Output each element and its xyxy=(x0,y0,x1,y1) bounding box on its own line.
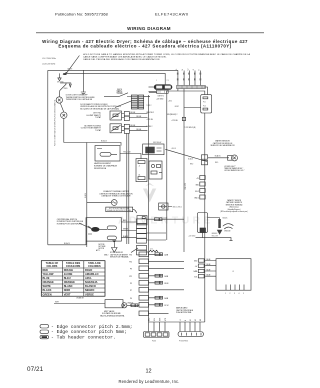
svg-text:N: N xyxy=(185,320,187,321)
svg-text:BLUE: BLUE xyxy=(207,259,211,261)
label MOTOR xyxy=(99,244,106,250)
svg-text:ELFE743CAW0: ELFE743CAW0 xyxy=(155,12,189,17)
bus x166 xyxy=(166,91,168,240)
svg-text:BLUE: BLUE xyxy=(207,270,211,272)
UI pin numbers xyxy=(225,293,244,295)
tiny labels above table xyxy=(96,249,109,257)
svg-text:T-STAT: T-STAT xyxy=(95,129,102,132)
wire top bus L1 xyxy=(48,69,178,71)
wire leader to warning note xyxy=(66,56,80,75)
svg-text:J1B M: J1B M xyxy=(164,283,169,285)
pin 2 xyxy=(183,71,185,86)
UI harness wires xyxy=(205,261,216,277)
wire grey to P11 xyxy=(184,107,201,109)
svg-text:P10: P10 xyxy=(129,262,132,264)
tall connector box P13 xyxy=(136,159,147,182)
svg-text:NEGRO: NEGRO xyxy=(85,288,94,292)
board top edge xyxy=(167,91,205,95)
earth drop wire xyxy=(81,70,86,95)
svg-text:WHITE: WHITE xyxy=(123,229,128,231)
moisture sensor icon wire xyxy=(208,218,220,220)
left group rotated labels xyxy=(148,317,167,321)
svg-text:L1: L1 xyxy=(176,68,178,70)
neutral short branch xyxy=(60,83,71,87)
svg-text:ORANGE: ORANGE xyxy=(76,296,85,299)
svg-text:P7: P7 xyxy=(130,290,132,292)
wire black horizontal to heater xyxy=(64,143,121,146)
svg-text:L1: L1 xyxy=(180,319,182,321)
stop sensor note xyxy=(110,252,129,259)
wire black to limiter xyxy=(87,202,112,204)
svg-text:BLUE: BLUE xyxy=(137,129,142,131)
svg-text:+12V GND: +12V GND xyxy=(156,98,164,100)
svg-text:ORANGE: ORANGE xyxy=(64,280,75,284)
right pin column x202 xyxy=(200,176,205,200)
svg-text:SENSOR DEL SALENTADOR: SENSOR DEL SALENTADOR xyxy=(210,144,235,147)
svg-text:T-CO SEN 2(-B): T-CO SEN 2(-B) xyxy=(185,127,196,129)
bus x204.5 xyxy=(204,113,206,322)
label blower housing safety t-stat xyxy=(81,125,102,132)
mist valve box xyxy=(105,300,123,308)
wire bus to P11 box xyxy=(204,87,208,95)
pin 5 xyxy=(200,71,202,86)
centrifugal switch dark oval xyxy=(91,227,99,232)
color table header xyxy=(46,261,101,268)
right group rotated labels xyxy=(180,319,202,321)
right pin labels xyxy=(194,178,200,200)
power cord terminal block xyxy=(154,84,173,89)
svg-text:M1: M1 xyxy=(200,319,202,321)
svg-text:E: E xyxy=(199,69,201,70)
aux component box xyxy=(149,161,162,179)
svg-text:Esquema de cableado eléctrico: Esquema de cableado eléctrico - 427 Seca… xyxy=(58,43,231,48)
moisture sensor arrow xyxy=(217,230,223,235)
water sensor note xyxy=(210,140,235,148)
indicator lamp circle 1 xyxy=(56,97,62,103)
svg-text:P12: P12 xyxy=(129,276,132,278)
svg-text:J1: J1 xyxy=(139,166,141,168)
svg-text:P3: P3 xyxy=(130,283,132,285)
label drum light xyxy=(224,166,245,172)
mist valve coil circle xyxy=(122,303,127,308)
svg-text:ROUGE: ROUGE xyxy=(64,268,74,272)
color table xyxy=(41,261,105,297)
svg-text:T-CO 2: T-CO 2 xyxy=(147,105,152,107)
board pin labels left column xyxy=(147,98,196,129)
upper harness rows right of cells xyxy=(147,219,185,240)
resistor 4.7k zigzag xyxy=(149,250,158,252)
svg-text:VERDE: VERDE xyxy=(85,292,94,296)
indicator lamp circle 2 xyxy=(61,112,67,118)
svg-text:NARANJA: NARANJA xyxy=(85,280,98,284)
svg-text:H2: H2 xyxy=(195,319,197,321)
gnd d-tml box xyxy=(159,203,168,210)
board bottom pins right group xyxy=(180,322,200,332)
left board connector column lower xyxy=(139,252,149,316)
svg-text:L2: L2 xyxy=(187,68,189,70)
moisture sensor arcs xyxy=(223,224,234,229)
wire gnd d-tml xyxy=(159,206,172,208)
svg-text:ADVENTURE: ADVENTURE xyxy=(118,214,214,226)
svg-text:D-TML 2: D-TML 2 xyxy=(147,126,153,128)
UI connector pin pairs xyxy=(198,259,204,278)
left column cell labels xyxy=(129,255,132,308)
label centrifugal switch xyxy=(57,218,84,226)
svg-text:Rendered by LeadVenture, Inc.: Rendered by LeadVenture, Inc. xyxy=(118,379,179,384)
svg-text:BLUE: BLUE xyxy=(137,116,142,118)
UI bottom pins xyxy=(226,285,244,291)
cell on bus x184 xyxy=(182,117,185,120)
pin top labels xyxy=(176,68,201,70)
svg-text:BLACK: BLACK xyxy=(43,288,52,292)
svg-text:P4XX: P4XX xyxy=(152,341,156,343)
ground tick xyxy=(229,240,232,242)
thermostat blower housing box xyxy=(110,124,122,133)
heating element box xyxy=(95,146,120,161)
edge connector J8 hatched block A xyxy=(131,95,137,109)
motor dark tab xyxy=(112,240,116,242)
warning note lines xyxy=(83,53,251,61)
wire valve to board xyxy=(127,304,139,306)
motor ground symbol xyxy=(112,243,118,253)
connector pair drum light xyxy=(202,155,208,165)
svg-text:TERMOSTATO DE LIMITE ALTA: TERMOSTATO DE LIMITE ALTA xyxy=(66,98,93,101)
pin 4 xyxy=(194,71,196,86)
svg-text:H1: H1 xyxy=(190,319,192,321)
wire diagonal drum light feed xyxy=(165,149,207,161)
tab connector symbols xyxy=(155,253,163,306)
label mist valve xyxy=(100,310,125,318)
svg-text:BLANCO: BLANCO xyxy=(85,284,96,288)
lower harness wires with tab connectors xyxy=(149,254,185,313)
svg-text:07/21: 07/21 xyxy=(27,366,44,373)
svg-text:ORANGE: ORANGE xyxy=(43,280,54,284)
bus drop to board xyxy=(177,89,179,91)
watermark V logo xyxy=(143,183,156,203)
tab pair upper row xyxy=(155,218,163,221)
svg-text:+12V GN: +12V GN xyxy=(147,119,153,121)
svg-text:COLORES: COLORES xyxy=(88,264,101,268)
label heating element xyxy=(94,162,118,170)
wire white door xyxy=(104,96,119,98)
note box below limiter xyxy=(106,207,133,212)
main board label xyxy=(176,307,194,315)
motor winding 1 xyxy=(107,226,116,230)
svg-text:RESISTENCIA: RESISTENCIA xyxy=(94,167,107,170)
svg-text:ROJO: ROJO xyxy=(85,268,92,272)
moisture sensor bar xyxy=(218,219,221,228)
svg-text:YELLOW: YELLOW xyxy=(43,272,54,276)
bus double vertical left xyxy=(127,133,129,244)
svg-text:COULEURS: COULEURS xyxy=(66,264,81,268)
svg-text:P16: P16 xyxy=(129,255,132,257)
leader door safety xyxy=(115,101,131,108)
svg-text:BLUE: BLUE xyxy=(207,264,211,266)
legend symbol tab header xyxy=(40,335,49,338)
wire to start lamp xyxy=(59,83,66,97)
pin header bus band xyxy=(177,85,206,88)
svg-text:WIRING DIAGRAM: WIRING DIAGRAM xyxy=(127,26,171,31)
label WHITE xyxy=(117,89,124,95)
svg-text:Publication No: 5995727368: Publication No: 5995727368 xyxy=(55,12,109,17)
motor winding 2 xyxy=(107,236,116,240)
bus x148 xyxy=(148,95,150,322)
label door light note xyxy=(66,95,96,102)
dart connector on bus xyxy=(63,72,67,75)
svg-text:NOIR: NOIR xyxy=(64,288,71,292)
wire earth bond stub xyxy=(149,91,157,93)
svg-text:BLOQUEO DE SEGURIDAD DE LA PUE: BLOQUEO DE SEGURIDAD DE LA PUERTA(S) xyxy=(80,108,119,111)
svg-text:COLORS: COLORS xyxy=(46,264,57,268)
svg-text:P6: P6 xyxy=(130,298,132,300)
svg-text:JAUNE: JAUNE xyxy=(64,272,73,276)
legend symbol edge 5mm xyxy=(40,330,49,333)
svg-text:AZUL: AZUL xyxy=(85,276,92,280)
svg-text:YELLOW: YELLOW xyxy=(212,235,219,237)
motor wire labels xyxy=(123,220,128,238)
svg-text:GREY: GREY xyxy=(175,106,179,108)
svg-text:BLEU: BLEU xyxy=(64,276,71,280)
wire green-yellow ground bottom xyxy=(196,238,232,241)
motor to connector wires xyxy=(121,222,136,238)
board bottom pins left group xyxy=(149,322,166,332)
svg-text:NEU: NEU xyxy=(148,318,150,321)
svg-text:+5V: +5V xyxy=(196,178,199,180)
connector cell column mid (J2) xyxy=(137,216,148,255)
thermostat dry tml box xyxy=(110,111,122,120)
connector box P11/P14 xyxy=(201,95,212,113)
svg-text:VERT: VERT xyxy=(64,292,71,296)
label BLUE wires xyxy=(131,112,142,131)
svg-text:CABLE SANS COMPTER AVANT LES A: CABLE SANS COMPTER AVANT LES ANNELAGE AV… xyxy=(83,56,167,59)
svg-text:P11: P11 xyxy=(203,101,206,103)
legend symbol edge 2.5mm xyxy=(40,325,49,328)
svg-text:PLACA PRINCIPAL: PLACA PRINCIPAL xyxy=(176,311,192,314)
svg-text:- Tab header connector.: - Tab header connector. xyxy=(51,335,116,341)
svg-text:L1-L2 240V 60Hz: L1-L2 240V 60Hz xyxy=(42,58,56,60)
svg-text:GREEN/: GREEN/ xyxy=(212,233,218,235)
thermal limiter circle xyxy=(111,200,117,206)
wire yellow heater to bus xyxy=(120,154,141,159)
svg-text:BLUE: BLUE xyxy=(131,125,136,127)
svg-text:BLACK: BLACK xyxy=(215,155,222,158)
bus x184 xyxy=(183,89,185,252)
svg-text:- Edge connector pitch 5mm;: - Edge connector pitch 5mm; xyxy=(51,329,127,335)
svg-text:SCK: SCK xyxy=(194,276,197,278)
svg-text:+12V GND: +12V GND xyxy=(188,235,196,237)
svg-text:BLUE: BLUE xyxy=(131,112,136,114)
svg-text:T-STAT: T-STAT xyxy=(95,116,102,119)
svg-text:2 3: 2 3 xyxy=(167,80,169,82)
relay K1 box xyxy=(143,144,164,155)
leader from note box xyxy=(133,209,137,213)
wire lamp2 down to black bus xyxy=(63,118,65,142)
wire black left of heater xyxy=(86,143,88,248)
label door safety interlock xyxy=(80,103,121,111)
svg-text:INTERRUPTOR CENTRIFUGO: INTERRUPTOR CENTRIFUGO xyxy=(57,223,83,225)
ground stub on bus xyxy=(58,73,61,80)
exhaust thermal limiter label xyxy=(99,190,133,198)
leader centrifugal xyxy=(79,223,91,229)
svg-text:GREEN: GREEN xyxy=(43,292,52,296)
svg-text:+5V 1: +5V 1 xyxy=(168,101,172,103)
earth terminal dark box xyxy=(157,90,169,93)
wire L1 left vertical xyxy=(47,70,49,245)
svg-text:RED/YEL 2: RED/YEL 2 xyxy=(147,112,155,114)
UI harness labels colors xyxy=(207,259,211,277)
board bottom edge xyxy=(149,321,205,323)
svg-text:SIG 2: SIG 2 xyxy=(195,191,199,193)
svg-text:L1-N 120V 60Hz: L1-N 120V 60Hz xyxy=(42,64,55,66)
svg-text:P7XXX P8XX: P7XXX P8XX xyxy=(179,341,188,343)
svg-text:BLANC: BLANC xyxy=(64,284,73,288)
pin cell column upper xyxy=(124,112,129,134)
left bottom connector strip xyxy=(144,332,170,338)
wire stub into terminal block xyxy=(149,86,154,88)
wire black bottom xyxy=(48,241,86,245)
harness labels xyxy=(164,253,169,307)
valve connector pair xyxy=(131,304,138,307)
svg-text:MOTOR: MOTOR xyxy=(99,248,105,250)
svg-text:SWITCH: SWITCH xyxy=(116,92,122,94)
wires t-stat to cells xyxy=(122,114,148,131)
svg-text:BLACK: BLACK xyxy=(101,140,108,143)
svg-text:WHITE: WHITE xyxy=(43,284,52,288)
svg-text:GND 2: GND 2 xyxy=(194,197,199,199)
svg-text:12: 12 xyxy=(146,368,152,374)
svg-text:P14: P14 xyxy=(203,105,206,107)
svg-text:LOW SPD: LOW SPD xyxy=(185,182,187,190)
svg-text:- Edge connector pitch 2.5mm;: - Edge connector pitch 2.5mm; xyxy=(51,324,133,330)
pin 1 xyxy=(177,70,179,85)
svg-text:WHITE: WHITE xyxy=(67,68,72,70)
svg-text:VALVULA NIEBLA/CENIZERA: VALVULA NIEBLA/CENIZERA xyxy=(100,314,125,317)
leader stop sensor xyxy=(131,248,138,253)
svg-text:AMARILLO: AMARILLO xyxy=(85,272,98,276)
svg-text:P9: P9 xyxy=(130,269,132,271)
wire sensor box to bus xyxy=(202,233,204,238)
UI harness labels left xyxy=(194,261,199,279)
wire black to drum light xyxy=(208,157,229,159)
door switch contact xyxy=(119,93,150,97)
svg-text:MOTOR/: MOTOR/ xyxy=(99,244,106,246)
UI board box xyxy=(216,259,251,291)
svg-text:RED: RED xyxy=(43,268,49,272)
svg-text:BLUE: BLUE xyxy=(43,276,50,280)
drum light lamp xyxy=(228,155,238,161)
svg-text:SENSOR DE PARADA: SENSOR DE PARADA xyxy=(110,256,129,259)
svg-text:MOTEUR/: MOTEUR/ xyxy=(99,246,106,248)
svg-text:+12V GN: +12V GN xyxy=(171,120,177,122)
header rule xyxy=(36,32,264,34)
svg-text:CABLE DEL PELUSA DEL MODELAGE: CABLE DEL PELUSA DEL MODELAGE CON CABLE … xyxy=(83,58,160,61)
edge connector J8 hatched block B xyxy=(139,95,144,109)
right bottom connector pill xyxy=(178,332,204,337)
svg-text:N: N xyxy=(182,69,184,70)
svg-text:4.7k: 4.7k xyxy=(150,249,153,251)
motor box xyxy=(86,218,121,241)
svg-text:BLACK: BLACK xyxy=(64,242,71,245)
wire top bus N xyxy=(63,73,165,84)
wire wht to valve xyxy=(54,303,105,305)
label dry tml safety t-stat xyxy=(87,113,102,120)
svg-text:VLV: VLV xyxy=(154,318,156,321)
svg-text:HOLD NOT USE CABLE TO HANDLE M: HOLD NOT USE CABLE TO HANDLE MOUNTING WI… xyxy=(83,53,251,56)
color table rows xyxy=(43,268,99,296)
svg-text:J1C M: J1C M xyxy=(164,305,169,307)
wire into earth block xyxy=(149,92,157,94)
svg-text:GND D-TML 2: GND D-TML 2 xyxy=(173,207,183,209)
capacity sensor note xyxy=(220,199,248,213)
svg-text:LO DRW LIGHT *: LO DRW LIGHT * xyxy=(224,166,236,168)
svg-text:BLUE: BLUE xyxy=(207,275,211,277)
svg-text:SEN 2: SEN 2 xyxy=(104,255,109,257)
svg-text:+5V: +5V xyxy=(195,266,198,268)
pin 3 xyxy=(188,71,190,86)
moisture sensor box xyxy=(198,213,208,233)
wire between lamps xyxy=(60,103,64,112)
